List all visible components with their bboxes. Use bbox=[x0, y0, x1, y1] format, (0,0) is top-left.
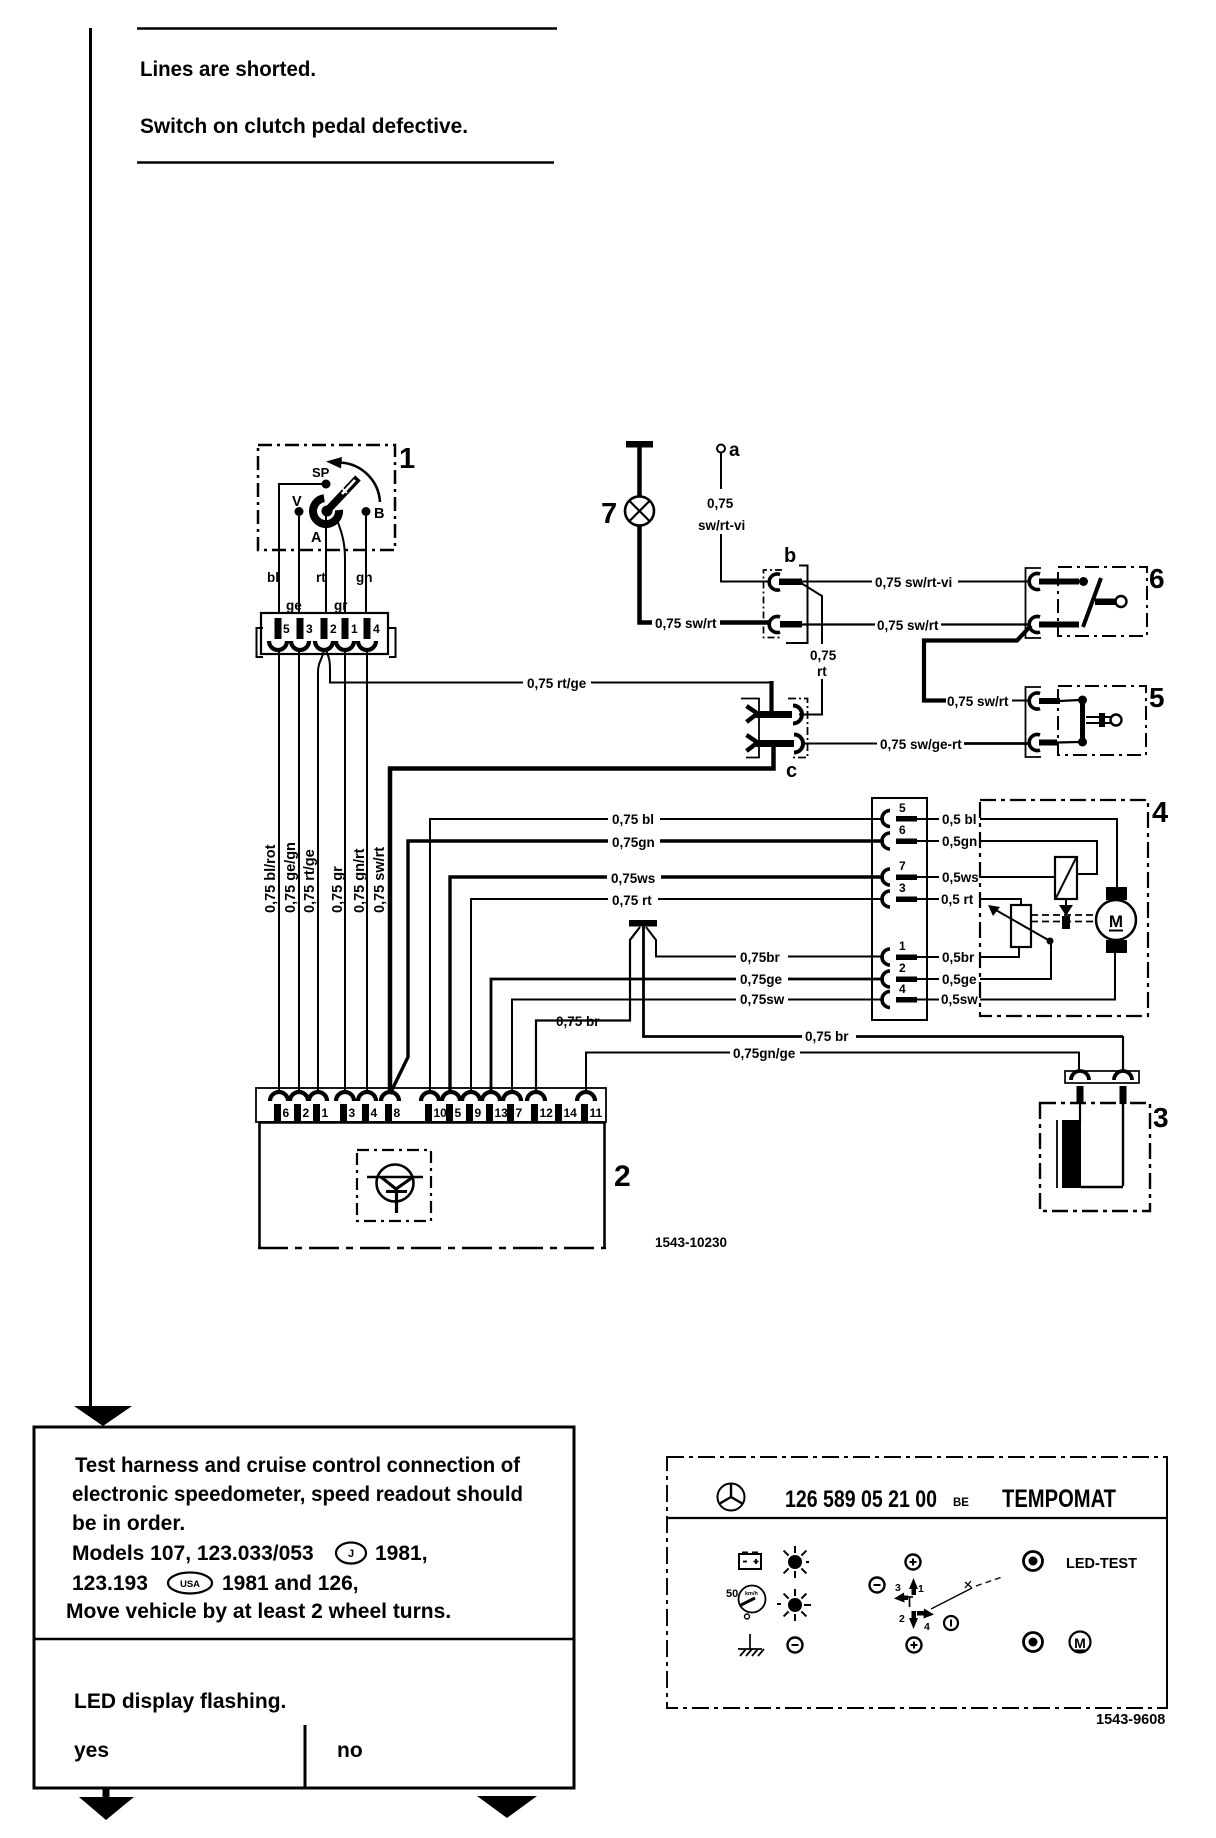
speedometer adjustment arc arrow bbox=[326, 457, 380, 502]
wire 0,5 rt to potentiometer bbox=[980, 899, 1021, 905]
svg-text:gn: gn bbox=[356, 570, 373, 585]
circled 1 indicator bbox=[944, 1616, 958, 1630]
svg-text:0,75 bl: 0,75 bl bbox=[612, 812, 654, 827]
connector pin 1 bbox=[336, 618, 358, 650]
LED sun symbol 1 bbox=[784, 1546, 809, 1578]
wire 0,75 rt/ge branch pin12 to connector c bbox=[326, 650, 772, 713]
svg-text:USA: USA bbox=[180, 1579, 200, 1590]
svg-text:4: 4 bbox=[371, 1106, 378, 1120]
wire 0,75 gn/ge ECU pin11 to transmitter bbox=[586, 1044, 1079, 1092]
svg-text:0,75 rt: 0,75 rt bbox=[612, 893, 652, 908]
ECU connector pin 3 bbox=[336, 1092, 356, 1121]
svg-text:7: 7 bbox=[601, 498, 617, 530]
svg-text:rt: rt bbox=[316, 570, 326, 585]
svg-text:0,75 gr: 0,75 gr bbox=[330, 866, 346, 913]
svg-text:126 589 05 21 00: 126 589 05 21 00 bbox=[785, 1486, 937, 1513]
ECU connector pin 6 bbox=[270, 1092, 290, 1121]
svg-text:13: 13 bbox=[495, 1106, 509, 1120]
svg-text:4: 4 bbox=[373, 622, 380, 636]
ECU connector pin 7 bbox=[503, 1092, 523, 1121]
svg-text:electronic speedometer, speed: electronic speedometer, speed readout sh… bbox=[72, 1483, 523, 1506]
svg-text:TEMPOMAT: TEMPOMAT bbox=[1002, 1485, 1116, 1513]
transmitter 3 (dash-dot box) bbox=[1040, 1102, 1169, 1211]
wire 0,75 sw/rt connector b to switch 6 bbox=[802, 617, 1031, 633]
wire 0,75 sw/rt-vi node a to connector b bbox=[698, 453, 770, 582]
indicator lamp 7 bbox=[601, 441, 654, 530]
ECU connector pin 13 bbox=[482, 1092, 508, 1121]
wire 0,75 ge/gn pin3 to ECU pin2 bbox=[283, 650, 299, 1092]
transistor sub-box (dash-dot) bbox=[357, 1150, 431, 1221]
svg-text:Move vehicle by at least 2 whe: Move vehicle by at least 2 wheel turns. bbox=[66, 1600, 451, 1623]
wire 0,75 sw ECU pin7 to actuator pin4 bbox=[512, 990, 884, 1092]
svg-text:6: 6 bbox=[899, 823, 906, 837]
svg-text:1981,: 1981, bbox=[375, 1542, 428, 1565]
speedometer terminal SP bbox=[312, 465, 331, 489]
wire 0,5 bl to motor bbox=[980, 819, 1117, 888]
svg-text:Switch on clutch pedal defecti: Switch on clutch pedal defective. bbox=[140, 114, 468, 138]
ECU connector pin 4 bbox=[358, 1092, 378, 1121]
circled plus (bottom) bbox=[907, 1638, 922, 1653]
svg-text:0,75ws: 0,75ws bbox=[611, 871, 655, 886]
svg-text:3: 3 bbox=[306, 622, 313, 636]
wire 0,5 gn to solenoid bbox=[980, 841, 1097, 874]
svg-text:Lines are shorted.: Lines are shorted. bbox=[140, 57, 316, 81]
svg-text:0,75 sw/rt: 0,75 sw/rt bbox=[655, 616, 717, 631]
svg-text:12: 12 bbox=[540, 1106, 554, 1120]
svg-text:LED display flashing.: LED display flashing. bbox=[74, 1690, 286, 1713]
speedometer icon bbox=[726, 1586, 766, 1620]
svg-text:3: 3 bbox=[899, 881, 906, 895]
flowchart text bbox=[66, 1454, 523, 1762]
rule below text block bbox=[137, 161, 554, 164]
svg-text:0,75 br: 0,75 br bbox=[556, 1014, 600, 1029]
svg-text:2: 2 bbox=[899, 1613, 905, 1625]
svg-text:11: 11 bbox=[590, 1106, 603, 1120]
transmitter 3 connector housing bbox=[1065, 1071, 1139, 1104]
svg-text:1: 1 bbox=[351, 622, 358, 636]
connector b bbox=[764, 545, 808, 643]
svg-text:0,75 rt/ge: 0,75 rt/ge bbox=[302, 849, 318, 913]
svg-text:6: 6 bbox=[1149, 563, 1165, 594]
svg-text:rt: rt bbox=[817, 664, 827, 679]
svg-text:4: 4 bbox=[899, 982, 906, 996]
svg-text:3: 3 bbox=[1153, 1102, 1169, 1133]
wire 0,75 rt connector b to connector c bbox=[800, 583, 837, 715]
ECU connector pin 10 bbox=[421, 1092, 447, 1121]
svg-text:1543-9608: 1543-9608 bbox=[1096, 1712, 1165, 1728]
svg-text:4: 4 bbox=[1152, 797, 1168, 829]
svg-text:2: 2 bbox=[614, 1160, 631, 1193]
svg-text:2: 2 bbox=[330, 622, 337, 636]
switch 5 (stop lamp switch) bbox=[1026, 682, 1165, 757]
svg-text:0,75gn/ge: 0,75gn/ge bbox=[733, 1046, 796, 1061]
connector pin 12 bbox=[315, 618, 337, 650]
svg-text:123.193: 123.193 bbox=[72, 1572, 148, 1595]
svg-text:M: M bbox=[1109, 912, 1123, 931]
ECU 2 (control unit box) bbox=[258, 1122, 631, 1249]
flowchart connector line (left vertical) bbox=[74, 28, 132, 1426]
ECU connector pin 1 bbox=[309, 1092, 329, 1121]
wire B to pin 14 bbox=[365, 516, 367, 614]
svg-text:Models 107, 123.033/053: Models 107, 123.033/053 bbox=[72, 1542, 314, 1565]
svg-text:0,75 sw/rt-vi: 0,75 sw/rt-vi bbox=[875, 575, 952, 590]
speedometer terminal B bbox=[362, 506, 385, 522]
switch 6 (clutch pedal switch) bbox=[1026, 563, 1165, 638]
actuator pin 3 bbox=[882, 881, 974, 907]
potentiometer bbox=[988, 905, 1054, 947]
svg-text:0,5ge: 0,5ge bbox=[942, 972, 977, 987]
svg-text:1543-10230: 1543-10230 bbox=[655, 1235, 727, 1250]
circled minus (middle) bbox=[870, 1578, 885, 1593]
svg-text:0,75 sw/ge-rt: 0,75 sw/ge-rt bbox=[880, 737, 962, 752]
svg-text:0,75 bl/rot: 0,75 bl/rot bbox=[263, 844, 279, 913]
svg-text:50: 50 bbox=[726, 1588, 738, 1600]
svg-text:0,75 sw/rt: 0,75 sw/rt bbox=[372, 847, 388, 913]
svg-text:5: 5 bbox=[1149, 682, 1165, 713]
ground symbol bbox=[738, 1634, 764, 1656]
svg-text:gr: gr bbox=[334, 598, 348, 613]
actuator pin 7 bbox=[882, 859, 979, 885]
svg-text:0,75 ge/gn: 0,75 ge/gn bbox=[283, 842, 299, 913]
Mercedes star logo bbox=[718, 1484, 745, 1511]
svg-text:0,75 sw/rt: 0,75 sw/rt bbox=[947, 694, 1009, 709]
svg-text:2: 2 bbox=[303, 1106, 310, 1120]
wire 0,75 gn ECU pin8 to actuator pin6 bbox=[390, 833, 884, 1094]
battery icon bbox=[739, 1552, 761, 1570]
LED test lamp (top) bbox=[1024, 1552, 1043, 1571]
svg-text:0,75: 0,75 bbox=[707, 496, 734, 511]
svg-text:0,5br: 0,5br bbox=[942, 950, 975, 965]
svg-text:SP: SP bbox=[312, 465, 330, 480]
ground splice node bbox=[536, 920, 1123, 1092]
svg-text:0,5gn: 0,5gn bbox=[942, 834, 977, 849]
svg-text:0,75gn: 0,75gn bbox=[612, 835, 655, 850]
svg-text:1981 and 126,: 1981 and 126, bbox=[222, 1572, 359, 1595]
wire 0,75 gr pin1 to ECU pin3 bbox=[330, 650, 346, 1092]
ECU connector pin 8 bbox=[381, 1092, 401, 1121]
actuator pin 6 bbox=[882, 823, 977, 849]
ECU connector pin 11 bbox=[577, 1092, 603, 1121]
solenoid valve bbox=[1055, 857, 1077, 929]
svg-text:5: 5 bbox=[283, 622, 290, 636]
svg-text:0,5 bl: 0,5 bl bbox=[942, 812, 977, 827]
tester panel box bbox=[667, 1457, 1167, 1708]
flowchart exit arrow no bbox=[477, 1796, 537, 1818]
connector pin 15 bbox=[269, 618, 290, 650]
svg-text:6: 6 bbox=[283, 1106, 290, 1120]
svg-text:b: b bbox=[784, 545, 796, 567]
svg-text:1: 1 bbox=[399, 443, 415, 475]
speedometer 1 (dash-dot box) bbox=[258, 445, 395, 550]
ECU connector housing bbox=[256, 1088, 606, 1122]
transistor symbol bbox=[367, 1165, 423, 1214]
wire 0,5 ws to solenoid bbox=[980, 876, 1055, 878]
flowchart exit arrow yes bbox=[79, 1788, 134, 1820]
wire SP to pin 15 bbox=[279, 484, 326, 614]
actuator connector column bbox=[872, 798, 927, 1020]
svg-text:Test harness and cruise contro: Test harness and cruise control connecti… bbox=[75, 1454, 521, 1477]
svg-text:10: 10 bbox=[434, 1106, 448, 1120]
wire 0,75 sw/rt switch 6 to switch 5 bbox=[924, 626, 1031, 710]
svg-text:7: 7 bbox=[516, 1106, 523, 1120]
wire 0,75 bl ECU pin10 to actuator pin5 bbox=[430, 810, 884, 1092]
mechanical linkage (dashed) bbox=[1031, 915, 1096, 922]
wire 0,75 br to transmitter right pin bbox=[1122, 1036, 1124, 1072]
svg-text:A: A bbox=[311, 530, 322, 546]
svg-text:sw/rt-vi: sw/rt-vi bbox=[698, 518, 745, 533]
wire 0,75 ws ECU pin5 to actuator pin7 bbox=[450, 869, 884, 1092]
wire 0,75 bl/rot pin15 to ECU pin6 bbox=[263, 650, 279, 1092]
ECU connector pin 9 bbox=[462, 1092, 482, 1121]
speedometer terminal V bbox=[292, 494, 304, 516]
svg-text:1: 1 bbox=[918, 1583, 924, 1595]
svg-text:ge: ge bbox=[286, 598, 302, 613]
actuator pin 1 bbox=[882, 939, 975, 965]
svg-text:3: 3 bbox=[349, 1106, 356, 1120]
ECU connector pin 2 bbox=[290, 1092, 310, 1121]
svg-text:0,75 br: 0,75 br bbox=[805, 1029, 849, 1044]
rule above text block bbox=[137, 27, 557, 30]
wire V to pin 3 bbox=[298, 516, 300, 614]
actuator 4 (dash-dot box) bbox=[980, 800, 1148, 1016]
ECU connector pin 12 bbox=[527, 1092, 553, 1121]
actuator pin 4 bbox=[882, 982, 978, 1008]
svg-text:5: 5 bbox=[455, 1106, 462, 1120]
svg-text:a: a bbox=[729, 440, 740, 461]
svg-text:4: 4 bbox=[924, 1621, 930, 1633]
ECU connector pin 5 bbox=[442, 1092, 462, 1121]
svg-text:2: 2 bbox=[899, 961, 906, 975]
wire 0,5 ge to wiper bbox=[980, 942, 1051, 979]
wire 0,75 rt ECU pin9 to actuator pin3 bbox=[471, 891, 884, 1092]
wire gauge to pin 1 bbox=[337, 520, 345, 614]
svg-text:0,75br: 0,75br bbox=[740, 950, 781, 965]
svg-text:14: 14 bbox=[564, 1106, 578, 1120]
svg-text:5: 5 bbox=[899, 801, 906, 815]
svg-text:0,75 rt/ge: 0,75 rt/ge bbox=[527, 676, 587, 691]
actuator pin 2 bbox=[882, 961, 977, 987]
wire 0,75 sw/rt-vi connector b to switch 6 bbox=[802, 574, 1031, 590]
actuator pin 5 bbox=[882, 801, 977, 827]
wire 0,75 sw/rt connector c to ECU pin 8 bbox=[372, 745, 774, 1093]
LED sun symbol 2 bbox=[777, 1589, 811, 1621]
instrument connector housing bbox=[257, 613, 396, 657]
connector pin 14 bbox=[358, 618, 380, 650]
direction arrow cluster bbox=[894, 1577, 1002, 1633]
wire 0,75 ge ECU pin13 to actuator pin2 bbox=[491, 970, 884, 1092]
LED test lamp (bottom) bbox=[1024, 1633, 1043, 1652]
circled minus (bottom left) bbox=[788, 1638, 803, 1653]
svg-text:0,75 sw/rt: 0,75 sw/rt bbox=[877, 618, 939, 633]
svg-text:0,5 rt: 0,5 rt bbox=[941, 892, 974, 907]
svg-text:M: M bbox=[1074, 1635, 1086, 1651]
motor M bbox=[1096, 887, 1136, 953]
svg-text:0,75ge: 0,75ge bbox=[740, 972, 783, 987]
svg-text:0,75: 0,75 bbox=[810, 648, 837, 663]
wire 0,5 br to potentiometer bbox=[980, 947, 1019, 957]
svg-text:0,5sw: 0,5sw bbox=[941, 992, 978, 1007]
svg-text:1: 1 bbox=[322, 1106, 329, 1120]
svg-text:c: c bbox=[786, 760, 797, 782]
connector pin 3 bbox=[291, 618, 313, 650]
svg-text:km/h: km/h bbox=[745, 1591, 758, 1597]
flowchart box bbox=[34, 1427, 574, 1788]
svg-text:0,5ws: 0,5ws bbox=[942, 870, 979, 885]
circled plus (top) bbox=[906, 1555, 921, 1570]
svg-text:LED-TEST: LED-TEST bbox=[1066, 1555, 1137, 1572]
svg-text:J: J bbox=[348, 1548, 354, 1560]
svg-text:7: 7 bbox=[899, 859, 906, 873]
wire 0,5 sw to motor bbox=[980, 952, 1115, 1000]
svg-text:be in order.: be in order. bbox=[72, 1512, 185, 1535]
wire 0,75 rt/ge pin12 to ECU pin1 bbox=[302, 650, 324, 1092]
svg-text:bl: bl bbox=[267, 570, 279, 585]
speedometer gauge symbol bbox=[313, 478, 358, 524]
svg-text:0,75sw: 0,75sw bbox=[740, 992, 785, 1007]
svg-text:1: 1 bbox=[899, 939, 906, 953]
ECU connector pin 14 bbox=[555, 1104, 577, 1121]
node a bbox=[717, 440, 740, 461]
svg-text:B: B bbox=[374, 506, 384, 522]
svg-text:yes: yes bbox=[74, 1739, 109, 1762]
svg-text:9: 9 bbox=[475, 1106, 482, 1120]
wire A to pin 12 bbox=[325, 516, 327, 614]
circled M (motor) bbox=[1070, 1632, 1091, 1653]
svg-text:8: 8 bbox=[394, 1106, 401, 1120]
transmitter coil bbox=[1057, 1104, 1123, 1188]
wire 0,75 gn/rt pin14 to ECU pin4 bbox=[352, 650, 368, 1092]
svg-text:3: 3 bbox=[895, 1582, 901, 1594]
wire 0,75 sw/ge-rt connector c to switch 5 bbox=[801, 737, 1031, 752]
svg-text:no: no bbox=[337, 1739, 363, 1762]
svg-text:BE: BE bbox=[953, 1497, 969, 1509]
wire 0,75 sw/rt lamp to connector b bbox=[640, 526, 771, 632]
connector c bbox=[741, 699, 808, 783]
svg-text:0,75 gn/rt: 0,75 gn/rt bbox=[352, 848, 368, 913]
